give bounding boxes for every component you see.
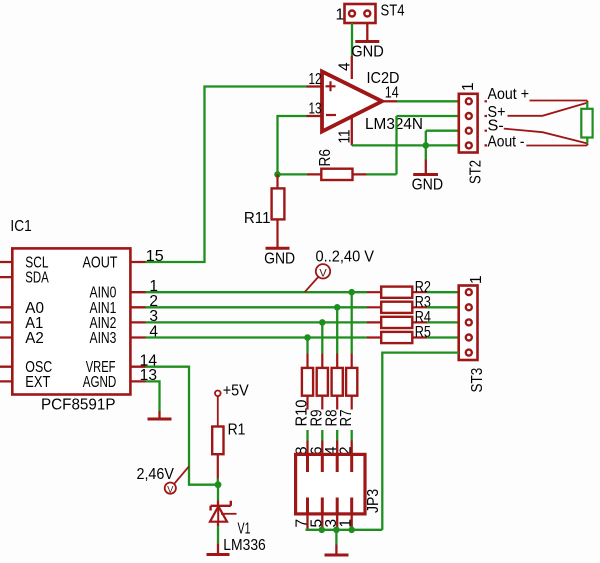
ground lead (V1) [217, 543, 219, 553]
junction dot AIN0/R7 [348, 289, 355, 296]
svg-text:GND: GND [264, 251, 295, 268]
svg-text:14: 14 [385, 85, 399, 102]
wire AIN2 row [146, 321, 368, 323]
wire R3 to ST3 pin2 [427, 306, 459, 308]
ground symbol (R11) [266, 247, 290, 250]
svg-text:R6: R6 [317, 149, 334, 167]
svg-text:ST2: ST2 [468, 160, 485, 184]
wire pin11/GND row to ST2 pin4 [352, 144, 459, 146]
svg-text:ST3: ST3 [469, 368, 486, 393]
wire R1 to node [217, 479, 219, 485]
resistor R5 [367, 332, 427, 343]
svg-text:AGND: AGND [83, 374, 117, 391]
svg-text:R7: R7 [338, 410, 355, 427]
svg-text:IC2D: IC2D [367, 70, 400, 87]
load cell bridge resistor [581, 102, 592, 144]
ground symbol (V1) [207, 553, 230, 556]
wire drop to R9 [321, 322, 323, 353]
load cell wire S+ [508, 103, 589, 116]
ground symbol (op-amp area) [413, 173, 438, 176]
load cell wire Aout- [526, 144, 588, 146]
ground wire drop (op-amp area) [425, 145, 427, 159]
pin 11 stub (IC2D) [351, 118, 353, 146]
connector ST4 [345, 4, 376, 23]
junction dot (pin13/R6/R11) [274, 171, 281, 178]
ground symbol (JP3) [325, 554, 349, 557]
connector ST2 [459, 94, 478, 153]
junction dot AIN3/R10 [304, 334, 311, 341]
wire bus to ground [335, 530, 337, 545]
wire VREF pin14 to node [146, 367, 219, 485]
svg-text:12: 12 [309, 71, 322, 88]
svg-text:JP3: JP3 [365, 489, 382, 513]
node junction dot (Vref node) [215, 481, 222, 488]
svg-text:R10: R10 [294, 399, 311, 426]
junction dot JP3 pin5 [319, 527, 326, 534]
op-amp plus sign [326, 81, 336, 91]
pin 14 stub (IC2D output) [382, 100, 397, 102]
junction dot AIN2/R9 [319, 319, 326, 326]
wire R6 to S+ vertical [367, 173, 397, 175]
svg-text:R11: R11 [244, 210, 271, 227]
svg-text:2,46V: 2,46V [137, 466, 175, 483]
wire output to ST2 pin1 [397, 100, 459, 102]
load cell wire S- [504, 129, 588, 144]
+5V lead to R1 [217, 396, 219, 426]
junction dot JP3 pin1 [348, 527, 355, 534]
pin 13 stub (IC2D) [307, 115, 323, 117]
connector ST3 [459, 286, 478, 361]
resistor R8 [332, 354, 343, 410]
svg-text:Aout +: Aout + [488, 86, 530, 103]
svg-text:PCF8591P: PCF8591P [41, 397, 116, 414]
svg-text:13: 13 [309, 101, 322, 118]
JP3 bottom pin stubs [308, 514, 352, 530]
jumper block JP3 [296, 454, 365, 514]
resistor R9 [317, 354, 328, 410]
svg-text:LM336: LM336 [223, 537, 265, 554]
svg-text:GND: GND [351, 44, 384, 61]
voltmeter probe symbol (AIN0) [305, 264, 331, 292]
resistor R2 [367, 287, 427, 298]
wire junction to R6 [278, 173, 308, 175]
wire AIN3 row [146, 336, 368, 338]
ground symbol (under ST4) [355, 40, 379, 43]
IC1 right pin stubs [130, 262, 145, 381]
resistor R3 [367, 302, 427, 313]
+5V supply symbol [215, 391, 221, 397]
svg-text:AIN3: AIN3 [90, 330, 117, 347]
net stubs resistors to JP3 [308, 430, 352, 441]
op-amp minus sign [326, 114, 336, 116]
resistor R11 [272, 174, 285, 247]
junction dot JP3 pin3 [333, 527, 340, 534]
svg-text:4: 4 [337, 62, 354, 71]
wire S+ net vertical to R6 [395, 116, 397, 174]
load cell wire Aout+ [530, 101, 589, 103]
svg-text:0..2,40 V: 0..2,40 V [316, 249, 375, 266]
zener diode V1 [210, 501, 237, 522]
svg-text:11: 11 [337, 130, 354, 144]
wire R4 to ST3 pin3 [427, 321, 459, 323]
wire AIN0 row [146, 291, 368, 293]
wire S- net [426, 131, 459, 146]
svg-text:A2: A2 [25, 330, 44, 347]
op-amp power pin 4 stub [351, 56, 353, 79]
resistor R1 [212, 427, 223, 479]
voltmeter probe symbol (Vref) [165, 466, 189, 495]
ground lead (op-amp area) [425, 160, 427, 174]
wire AOUT to op-amp pin12 [146, 87, 307, 263]
resistor R7 [346, 354, 357, 410]
svg-text:R8: R8 [323, 410, 340, 427]
resistor R10 [302, 354, 313, 410]
wire R2 to ST3 pin1 [427, 291, 459, 293]
svg-text:1: 1 [338, 519, 355, 528]
svg-text:+5V: +5V [223, 383, 250, 400]
resistor R6 [307, 169, 367, 180]
svg-text:R1: R1 [228, 422, 246, 439]
wire drop to R10 [306, 338, 308, 354]
pin 12 stub (IC2D) [307, 85, 323, 87]
wire drop to R8 [336, 307, 338, 353]
svg-text:S-: S- [488, 117, 504, 134]
wire S+ net horizontal [397, 115, 459, 117]
IC U1 IC1 box [12, 248, 130, 394]
svg-text:R9: R9 [308, 410, 325, 427]
svg-text:LM324N: LM324N [365, 116, 423, 133]
ground lead (JP3) [335, 545, 337, 555]
ground symbol (pin13) [148, 418, 172, 421]
wire ST3 pin5 to JP3 bus [382, 353, 458, 530]
svg-text:ST4: ST4 [381, 3, 405, 20]
wire node to V1 [217, 485, 219, 501]
svg-text:1: 1 [336, 7, 345, 24]
junction dot (S-/Aout-/GND) [423, 142, 430, 149]
wire AIN1 row [146, 306, 368, 308]
svg-text:1: 1 [468, 275, 485, 284]
wire pin13 to junction [278, 116, 307, 174]
wire ST4 pin1 down [351, 23, 353, 56]
junction dot AIN1/R8 [334, 304, 341, 311]
resistor R4 [367, 317, 427, 328]
IC1 left pin stubs [0, 262, 12, 381]
svg-text:IC1: IC1 [10, 218, 31, 235]
wire drop to R7 [351, 292, 353, 353]
wire JP3 bottom bus [306, 529, 383, 531]
svg-text:Aout -: Aout - [488, 133, 525, 150]
svg-text:EXT: EXT [25, 374, 50, 391]
svg-text:V1: V1 [238, 521, 251, 538]
wire AGND pin13 to ground [146, 381, 160, 411]
svg-text:V: V [167, 484, 174, 495]
svg-text:SDA: SDA [25, 270, 49, 287]
wire V1 to ground [217, 522, 219, 526]
pin stub dots (ST2) [485, 101, 488, 145]
svg-text:V: V [319, 267, 327, 279]
op-amp U IC2D triangle [322, 72, 382, 132]
wire R5 to ST3 pin4 [427, 336, 459, 338]
svg-text:1: 1 [460, 82, 477, 91]
ground lead (pin13) [158, 411, 160, 418]
svg-text:GND: GND [412, 176, 444, 193]
ground lead (ST4 pin2) [366, 23, 368, 41]
JP3 top pin stubs [308, 441, 352, 455]
svg-text:AOUT: AOUT [83, 255, 118, 272]
